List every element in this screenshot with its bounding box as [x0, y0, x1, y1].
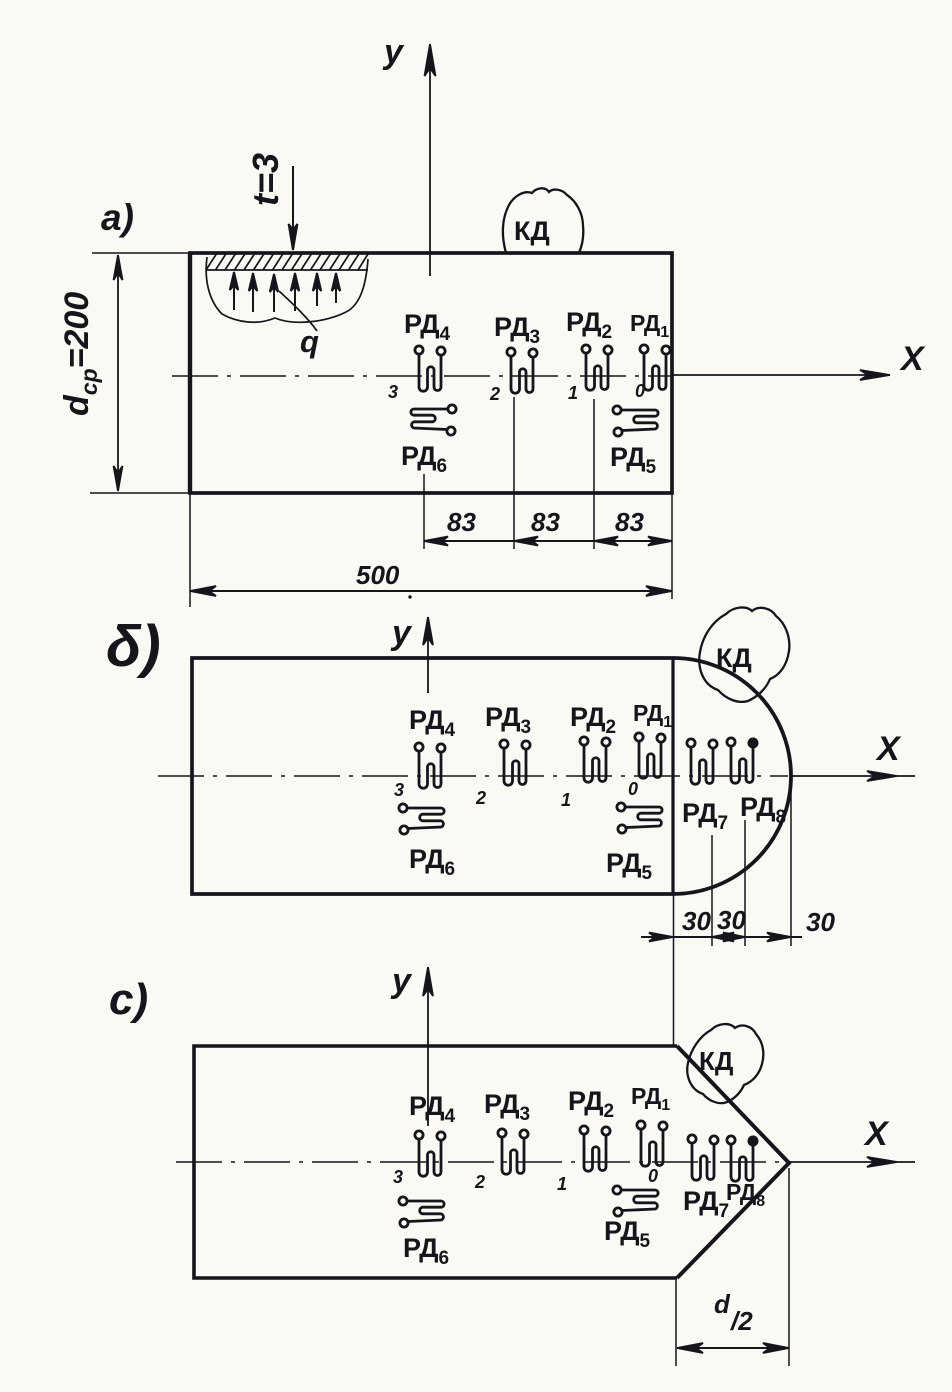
point digit 3 (view c) [393, 1167, 403, 1187]
svg-text:КД: КД [716, 643, 752, 673]
dimension line d/2 [677, 1343, 789, 1353]
X axis centerline (view b) [158, 775, 788, 777]
label KD (view c) [699, 1046, 734, 1076]
svg-text:X: X [899, 340, 926, 378]
gauge RD2 (view b) [580, 737, 610, 782]
label t=3 (rotated) [245, 153, 286, 206]
svg-text:X: X [875, 730, 902, 768]
X axis arrow (view c) [789, 1157, 915, 1167]
dimension line 30-30-30 [641, 933, 802, 942]
svg-text:/2: /2 [730, 1306, 753, 1336]
label q [300, 324, 319, 359]
svg-text:y: y [382, 33, 405, 71]
thickness arrow t=3 [289, 166, 298, 250]
point digit 2 [489, 384, 500, 404]
Y axis (view b) [423, 617, 433, 693]
svg-text:РД5: РД5 [604, 1216, 651, 1252]
label c) [109, 975, 148, 1024]
point digit 3 (view b) [394, 780, 404, 800]
specimen body outline (view c) [194, 1046, 789, 1278]
gauge RD4 (view b) [415, 743, 445, 788]
svg-text:РД2: РД2 [566, 307, 612, 343]
KD callout cloud (view c) [687, 1024, 763, 1103]
distributed load q up-arrows [230, 272, 340, 312]
label RD1 [630, 310, 669, 341]
X axis arrow (view a) [672, 370, 890, 380]
gauge RD7 (view b) [687, 739, 717, 784]
gauge RD1 (view c) [637, 1121, 667, 1166]
top edge extension line [92, 252, 190, 254]
svg-text:0: 0 [635, 381, 645, 401]
svg-text:83: 83 [531, 507, 560, 537]
extension line x=673 (view b) [673, 894, 675, 1045]
svg-text:РД4: РД4 [409, 1091, 456, 1127]
label RD3 (view b) [485, 702, 531, 738]
extension line x=789 (view c) [788, 1168, 790, 1366]
svg-text:РД5: РД5 [606, 848, 653, 884]
svg-text:РД3: РД3 [494, 312, 540, 348]
point digit 0 (view b) [628, 779, 638, 799]
extension line x=676 (view c full) [675, 1279, 677, 1366]
svg-text:0: 0 [628, 779, 638, 799]
extension line right edge down [671, 493, 673, 599]
label X (view a) [899, 340, 926, 378]
svg-text:РД5: РД5 [610, 442, 657, 478]
gauge RD6 (view a, tabs right) [411, 405, 456, 435]
svg-text:1: 1 [557, 1174, 567, 1194]
dimension line 500 [190, 586, 672, 596]
svg-text:КД: КД [699, 1046, 734, 1076]
label X (view b) [875, 730, 902, 768]
svg-text:30: 30 [717, 905, 746, 935]
svg-text:2: 2 [475, 788, 486, 808]
svg-text:3: 3 [388, 382, 398, 402]
label RD2 (view b) [570, 702, 616, 738]
label RD6 (view c) [403, 1233, 449, 1269]
extension line x=712 [711, 835, 713, 946]
svg-text:83: 83 [615, 507, 644, 537]
gauge RD2 (view c) [580, 1126, 610, 1171]
label X (view c) [863, 1115, 890, 1153]
point digit 0 (view c) [648, 1166, 658, 1186]
svg-text:РД6: РД6 [403, 1233, 449, 1269]
Y axis (view c) [423, 967, 433, 1126]
label RD1 (view b) [633, 700, 672, 731]
svg-text:500: 500 [356, 560, 400, 590]
dim text 30 (3) [806, 907, 835, 937]
extension line x=514 [513, 397, 515, 549]
svg-text:q: q [300, 324, 319, 359]
gauge RD3 (view a) [507, 348, 537, 393]
gauge RD8 (view c) [727, 1136, 758, 1182]
label RD8 (view c) [726, 1179, 765, 1210]
label RD2 (view c) [568, 1086, 614, 1122]
label RD3 [494, 312, 540, 348]
gauge RD1 (view a) [640, 345, 670, 390]
svg-text:РД8: РД8 [740, 792, 786, 828]
svg-text:РД1: РД1 [630, 310, 669, 341]
point digit 1 (view b) [561, 790, 571, 810]
label KD (view a) [514, 216, 550, 246]
svg-text:РД6: РД6 [401, 441, 447, 477]
X axis centerline (view a) [172, 375, 671, 377]
label d_cp=200 (rotated) [58, 292, 102, 416]
X axis arrow (view b) [791, 771, 915, 781]
svg-text:РД7: РД7 [682, 798, 728, 834]
svg-text:83: 83 [447, 507, 476, 537]
svg-text:3: 3 [393, 1167, 403, 1187]
gauge RD5 (view a) [613, 406, 658, 436]
svg-text:d: d [714, 1289, 731, 1319]
dim text 30 (1) [682, 906, 711, 936]
label RD5 (view b) [606, 848, 653, 884]
KD callout cloud (view b) [699, 607, 789, 701]
point digit 1 [568, 383, 578, 403]
dim text 83 (3) [615, 507, 644, 537]
label RD6 (view b) [409, 844, 455, 880]
gauge RD8 (view b) [727, 738, 758, 784]
svg-text:δ): δ) [106, 614, 161, 679]
bottom edge extension line [90, 492, 190, 494]
label RD8 (view b) [740, 792, 786, 828]
label RD7 (view c) [683, 1186, 729, 1222]
gauge RD5 (view c) [613, 1186, 658, 1216]
Y axis (view a) [425, 44, 436, 276]
label RD7 (view b) [682, 798, 728, 834]
svg-text:30: 30 [682, 906, 711, 936]
label RD5 (view c) [604, 1216, 651, 1252]
gauge RD3 (view b) [500, 740, 530, 785]
dim text 30 (2) [717, 905, 746, 935]
specimen body outline (view b) [192, 658, 791, 894]
gauge RD6 (view c) [399, 1197, 444, 1227]
point digit 1 (view c) [557, 1174, 567, 1194]
svg-text:3: 3 [394, 780, 404, 800]
X axis centerline (view c) [176, 1161, 786, 1163]
label y (view a) [382, 33, 405, 71]
label y (view b) [390, 614, 413, 652]
svg-text:1: 1 [568, 383, 578, 403]
svg-text:РД3: РД3 [485, 702, 531, 738]
svg-text:РД1: РД1 [631, 1083, 670, 1114]
gauge RD3 (view c) [498, 1129, 528, 1174]
point digit 2 (view c) [474, 1172, 485, 1192]
label b) [106, 614, 161, 679]
svg-text:t=3: t=3 [245, 153, 286, 206]
svg-text:РД1: РД1 [633, 700, 672, 731]
label RD2 [566, 307, 612, 343]
svg-text:РД4: РД4 [404, 309, 451, 345]
svg-text:РД2: РД2 [570, 702, 616, 738]
extension line left edge down [189, 493, 191, 607]
svg-text:РД6: РД6 [409, 844, 455, 880]
label RD1 (view c) [631, 1083, 670, 1114]
dim text 500 [356, 560, 400, 590]
label RD4 (view b) [409, 705, 456, 741]
point digit 2 (view b) [475, 788, 486, 808]
label a) [101, 197, 134, 238]
svg-text:30: 30 [806, 907, 835, 937]
extension line x=594 [593, 399, 595, 549]
stray speck [408, 595, 411, 598]
svg-text:РД3: РД3 [484, 1089, 530, 1125]
dimension line 83-83-83 [424, 537, 672, 546]
svg-text:РД7: РД7 [683, 1186, 729, 1222]
freehand bubble around load arrows [206, 257, 368, 322]
label RD5 [610, 442, 657, 478]
svg-text:X: X [863, 1115, 890, 1153]
svg-text:dср=200: dср=200 [58, 292, 102, 416]
extension line x=791 [790, 778, 792, 946]
label RD6 [401, 441, 447, 477]
svg-text:y: y [390, 962, 413, 1000]
extension line x=745 [744, 820, 746, 946]
label RD4 [404, 309, 451, 345]
extension line x=424 [423, 474, 425, 549]
svg-text:y: y [390, 614, 413, 652]
svg-text:РД4: РД4 [409, 705, 456, 741]
gauge RD6 (view b) [399, 804, 444, 834]
gauge RD5 (view b) [617, 803, 662, 833]
svg-text:2: 2 [474, 1172, 485, 1192]
svg-text:КД: КД [514, 216, 550, 246]
gauge RD4 (view c) [415, 1131, 445, 1176]
point digit 0 [635, 381, 645, 401]
point digit 3 [388, 382, 398, 402]
gauge RD1 (view b) [635, 733, 665, 778]
gauge RD2 (view a) [582, 345, 612, 390]
svg-text:2: 2 [489, 384, 500, 404]
dim text 83 (2) [531, 507, 560, 537]
leader line for q [279, 291, 317, 331]
dim text d/2 [714, 1289, 753, 1336]
hatched load strip [206, 253, 368, 270]
diameter dimension line d=200 [114, 255, 123, 491]
gauge RD4 (view a) [415, 346, 445, 391]
KD callout cloud (view a) [503, 188, 583, 253]
gauge RD7 (view c) [688, 1135, 718, 1180]
svg-text:c): c) [109, 975, 148, 1024]
label KD (view b) [716, 643, 752, 673]
label RD4 (view c) [409, 1091, 456, 1127]
svg-text:1: 1 [561, 790, 571, 810]
svg-text:0: 0 [648, 1166, 658, 1186]
svg-text:a): a) [101, 197, 134, 238]
label RD3 (view c) [484, 1089, 530, 1125]
specimen body outline (view a) [190, 253, 672, 493]
svg-text:РД2: РД2 [568, 1086, 614, 1122]
dim text 83 (1) [447, 507, 476, 537]
label y (view c) [390, 962, 413, 1000]
